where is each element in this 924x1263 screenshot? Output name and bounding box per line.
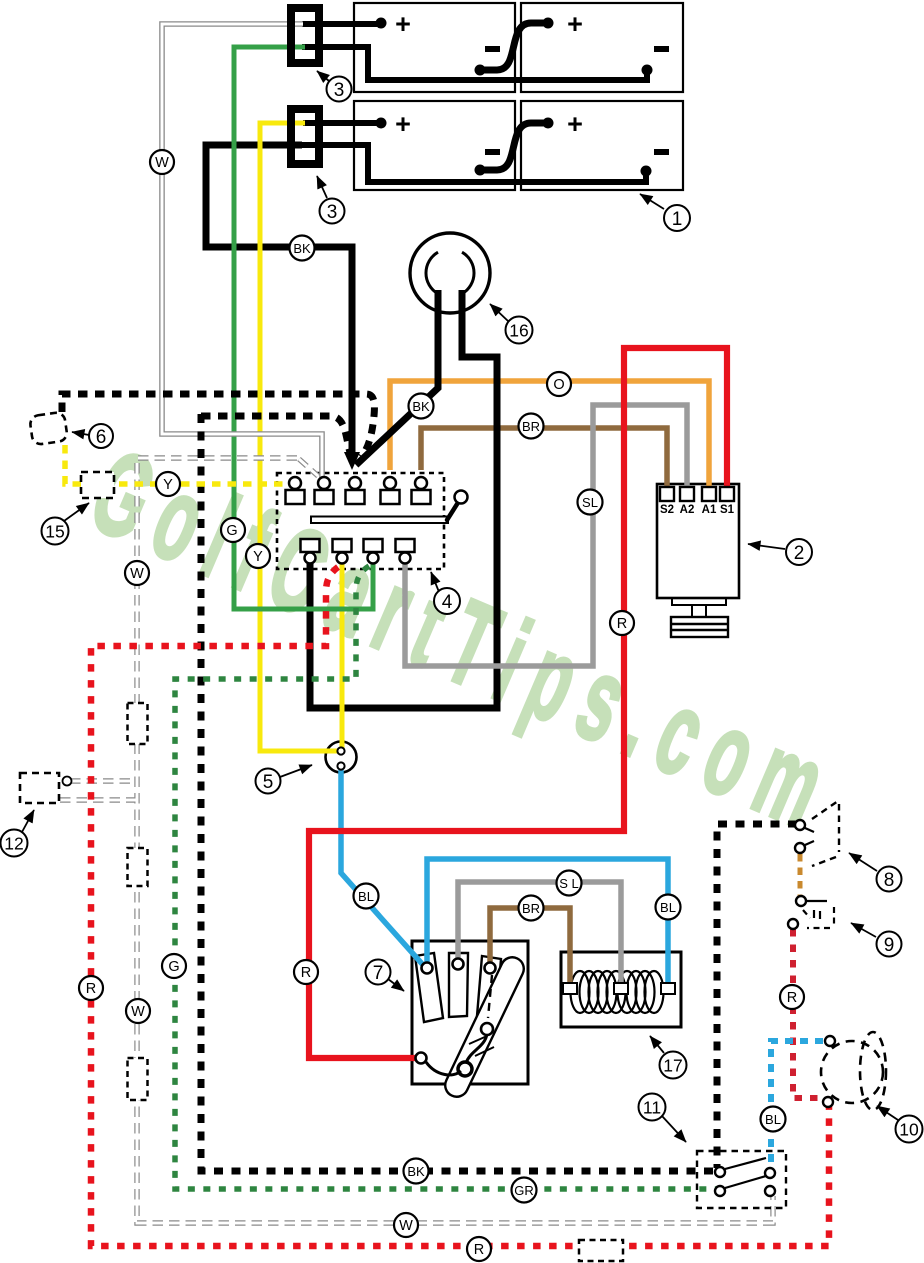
battery box 4 (row2 right) [521,101,683,190]
battery jumper row2 [480,123,548,170]
svg-text:4: 4 [442,592,453,613]
callout 11 [639,1094,687,1143]
wire blue switch7 T1 to coil 17 right [427,859,668,985]
component 12 dashed box [20,773,59,803]
wire black receptacle right leg to terminal B1 big loop [310,290,497,708]
svg-text:11: 11 [643,1098,661,1118]
svg-text:R: R [617,616,627,632]
wire label R red right [610,611,634,635]
motor controller switch 7 box and blades [412,941,528,1101]
solenoid 2 terminal squares [660,487,734,501]
wire label W bottom [394,1213,418,1237]
wire red dashed B2 to motor loop [91,567,829,1246]
micro switch 8 [805,801,839,866]
motor 10 dashed body [821,1041,883,1103]
svg-text:12: 12 [4,834,23,854]
wire label S L gray lower [557,871,582,896]
resistor coil assembly 17 box and coils [561,952,681,1027]
svg-text:Y: Y [253,549,263,565]
svg-text:15: 15 [45,522,64,542]
svg-text:G: G [168,959,179,975]
svg-text:9: 9 [884,935,895,956]
wire label BR brown upper [519,414,544,439]
wire white battery row1 positive to T2 [162,24,322,480]
svg-text:3: 3 [334,80,345,101]
wire label R red dashed left [79,976,103,1000]
callout 10 [877,1106,923,1143]
connector 11 terminals [715,1167,725,1177]
svg-text:2: 2 [794,543,805,564]
battery terminal dots row1 [376,18,653,177]
component 6 dashed connector [29,412,68,446]
callout 15 [42,503,90,545]
coil 17 terminal squares [563,983,675,994]
svg-text:G: G [226,523,237,539]
callout 3 connector row2 [317,176,345,224]
watermark GolfCartTips.com [74,425,857,859]
wire label BK upper [290,236,315,261]
wire blue dashed motor to connector 11 [771,1041,823,1168]
callout 17 [650,1036,687,1079]
svg-text:+: + [567,9,583,39]
callout 4 terminal block [431,572,460,614]
wire black dashed right (switch 8 to connector 11) [717,824,797,1168]
svg-text:SL: SL [582,495,598,510]
inline connector on white chain middle [128,848,148,886]
svg-text:BL: BL [660,900,676,915]
connector block 3 row1 [291,8,319,63]
svg-text:GR: GR [514,1183,534,1198]
svg-text:S L: S L [559,876,579,891]
svg-text:BR: BR [522,419,540,434]
motor terminals [825,1036,835,1046]
component 15 dashed box [81,472,114,498]
wire brown switch7 T3 to coil 17 left [490,908,570,985]
wire label BL blue dashed [761,1107,786,1132]
wire yellow battery row2 positive to switch 5 [260,123,339,751]
wire label GR bottom [512,1178,537,1203]
callout 9 [851,923,902,957]
wire red dashed switch 9 to motor top [793,929,824,1098]
wire label BL blue right [656,895,681,920]
wire yellow T-block B2 down to switch 5 [340,561,345,750]
wire black connector row2 left to T3 [206,145,352,458]
wire label SL slate [578,490,603,515]
svg-text:+: + [567,109,583,139]
callout 1 battery [640,194,690,231]
wire black dashed long (left vertical to connector 11) [201,416,352,459]
wire label W top left [150,150,174,174]
svg-text:7: 7 [373,963,384,984]
callout 8 [849,853,902,892]
wire label R red switch7 [294,960,318,984]
svg-text:5: 5 [263,772,274,793]
inline connector on white chain lower [128,1058,148,1100]
battery polarity marks [395,9,669,155]
wire label Y dashed yellow [156,472,180,496]
wire black battery row2 negative chain [302,145,646,182]
svg-text:BL: BL [765,1112,781,1127]
svg-text:3: 3 [327,202,338,223]
svg-text:+: + [395,9,411,39]
wire blue switch5 to switch7 T1 [341,768,424,966]
inline connector on red bottom wire [579,1240,623,1261]
svg-text:A1: A1 [702,504,717,516]
key lever of block 4 [311,517,448,524]
callout 16 receptacle [490,304,533,344]
battery box 2 (row1 right) [521,3,683,92]
wire gray slate B4 to solenoid A2 [405,405,687,666]
terminal block 4 dashed border [277,473,444,569]
svg-text:A2: A2 [680,504,695,516]
svg-text:6: 6 [96,427,107,448]
terminal block 4 bottom terminals [301,539,415,564]
wire green battery row1 to T-block B3 [234,47,373,609]
wire black dashed top (component 6 to T3) [62,394,374,457]
wire gray slate switch7 T2 to coil 17 middle [458,882,621,985]
svg-text:R: R [301,965,311,981]
arrowhead at T3 [344,452,360,470]
wire yellow dashed component 6 to T1 [65,445,286,484]
wire label Y yellow [246,544,270,568]
wire label G green [221,518,245,542]
wire green dashed B3 to connector 11 [175,566,717,1189]
charger receptacle 16 body [410,233,490,313]
callout 3 connector row1 [317,71,352,102]
svg-text:17: 17 [663,1056,682,1076]
svg-text:S2: S2 [660,504,674,516]
switch 5 body circle [326,742,357,773]
callout 6 [72,424,113,448]
wire black battery row1 negative chain [302,47,647,80]
terminal block 4 top terminals [286,477,431,504]
svg-text:8: 8 [884,870,895,891]
wire label W white chain [126,999,150,1023]
wire label G green dashed [162,954,186,978]
connector 11 blades [725,1158,766,1188]
svg-text:BL: BL [358,889,374,904]
wire tan dashed switch8 to switch9 [798,854,803,896]
wire label BK middle [409,394,434,419]
svg-text:R: R [474,1242,484,1258]
solenoid pin labels [660,504,735,516]
wire orange T4 to solenoid A1 [390,381,709,492]
svg-text:1: 1 [672,209,683,230]
battery jumper row1 [480,23,548,70]
wire label O orange [547,372,571,396]
svg-text:S1: S1 [720,504,735,516]
callout 7 [366,960,405,992]
battery box 3 (row2 left) [354,101,515,190]
svg-text:R: R [787,990,797,1006]
callout 12 [1,810,35,857]
wire white dashed chain left side [60,458,773,1223]
wire black battery row1 positive to connector [302,21,381,27]
svg-text:BK: BK [412,399,430,414]
svg-text:BR: BR [522,901,540,916]
buzzer 9 [803,901,834,928]
wire label BL blue left [354,884,379,909]
wire red solenoid S1 to switch 7 [309,348,727,1058]
wire label R red dashed right [780,985,804,1009]
callout 5 switch [256,765,313,794]
inline connector on white chain upper [128,703,148,744]
connector 11 dashed box [697,1151,786,1208]
wiper arm of switch 7 [441,953,527,1100]
callout 2 solenoid [748,539,812,565]
connector block 3 row2 [291,109,319,164]
wire label BK bottom [404,1159,429,1184]
wire black receptacle left leg diagonal to T3 [356,290,438,465]
solenoid 2 body [657,484,739,637]
svg-text:W: W [155,155,169,171]
wire label R bottom [467,1237,491,1261]
battery box 1 (row1 left) [354,3,515,92]
svg-text:R: R [86,981,96,997]
component 12 terminal circle [63,777,72,786]
svg-text:BK: BK [407,1164,425,1179]
switch 7 terminal circles [416,959,496,1064]
svg-text:Y: Y [163,477,173,493]
wire label W white dashed [125,561,149,585]
wire brown T5 to solenoid S2 [421,428,667,492]
wire black battery row2 positive to connector [303,120,381,126]
wire label BR brown lower [519,896,544,921]
svg-text:W: W [130,566,144,582]
svg-text:10: 10 [899,1120,919,1140]
svg-text:16: 16 [509,321,528,341]
svg-text:O: O [553,377,564,393]
svg-text:W: W [399,1218,413,1234]
svg-text:+: + [395,109,411,139]
switch 5 terminal dots [337,747,344,754]
svg-text:BK: BK [293,241,311,256]
svg-text:W: W [131,1004,145,1020]
